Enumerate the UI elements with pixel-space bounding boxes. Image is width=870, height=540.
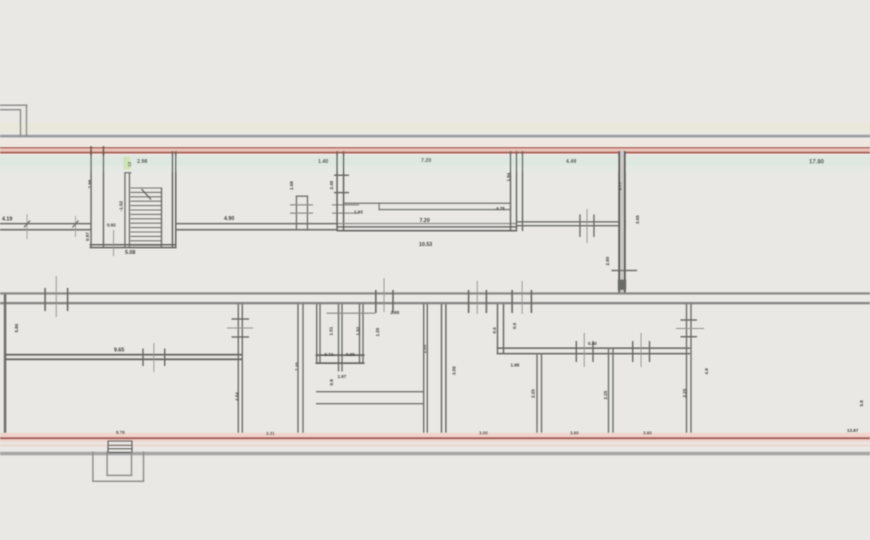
stair block second wall (103, 151, 105, 248)
svg-text:4.90: 4.90 (224, 216, 234, 222)
lower band left wall (4, 294, 7, 438)
svg-text:2.25: 2.25 (531, 389, 536, 398)
door D1 tick left (576, 341, 577, 362)
bathroom right wall line 1 (510, 151, 511, 231)
stair rail line 1 (124, 172, 125, 247)
svg-text:1.93: 1.93 (354, 210, 363, 215)
chimney protrusion top-left horizontal lines (0, 105, 28, 106)
stair block left wall (90, 151, 92, 248)
green room label patch (123, 157, 130, 170)
svg-text:3.00: 3.00 (479, 431, 488, 436)
entrance steps tread 2 (108, 448, 132, 449)
wall x240 line 1 (238, 304, 239, 438)
svg-text:3.60: 3.60 (570, 431, 579, 436)
porch outer right wall (143, 452, 144, 483)
svg-text:1.26: 1.26 (375, 327, 380, 336)
window W4 right tick (531, 290, 533, 313)
dim ext line x27 (26, 214, 29, 239)
window W1 ext line (55, 276, 58, 317)
shaft right line (307, 196, 308, 231)
stair outer right wall line 2 (175, 151, 177, 248)
counter step connector (379, 203, 380, 211)
svg-text:2.25: 2.25 (682, 388, 687, 397)
pale green band fade (0, 166, 870, 172)
chimney protrusion vertical lines (20, 109, 21, 137)
svg-text:-1.52: -1.52 (118, 201, 123, 212)
L wall horizontal (497, 347, 690, 349)
stair outer right wall line 1 (172, 151, 174, 248)
porch inner bottom wall (106, 475, 132, 476)
stair inner right wall (161, 188, 162, 248)
wc partition 2 (359, 304, 360, 364)
window W1 right tick (67, 288, 69, 311)
svg-text:2.25: 2.25 (603, 390, 608, 399)
svg-text:4.04: 4.04 (235, 392, 240, 401)
wc block right wall (423, 304, 424, 438)
svg-text:2.98: 2.98 (137, 159, 147, 165)
wc stall door tick line (327, 313, 376, 314)
svg-text:0.6: 0.6 (512, 322, 517, 329)
svg-text:0.40: 0.40 (588, 341, 597, 346)
window W4 left tick (511, 290, 513, 313)
opening tick top on x240 wall (232, 318, 250, 319)
room C bottom wall (517, 221, 626, 222)
corridor wall x444 (441, 304, 442, 438)
svg-text:5.8: 5.8 (859, 400, 864, 407)
bathroom inner counter line (344, 203, 510, 204)
door tick lower on bathroom wall (334, 192, 349, 193)
door D2 tick left (632, 341, 633, 362)
opening ext line on x689 wall (676, 328, 704, 329)
door D2 ext line (640, 333, 643, 367)
porch inner right wall (131, 452, 132, 477)
lower band top wall upper line (0, 292, 870, 294)
pale green band under top wall (0, 156, 870, 166)
svg-text:0.6: 0.6 (492, 327, 497, 334)
stair block bottom wall (90, 244, 177, 246)
bathroom left wall line 1 (336, 151, 338, 231)
door D1 ext line (583, 333, 586, 367)
bathroom inner step line (379, 209, 511, 210)
bathroom left wall line 2 (343, 151, 345, 231)
svg-text:0.92: 0.92 (107, 223, 116, 228)
counter double line 1 (316, 391, 424, 392)
exterior red wall bottom faint line (0, 444, 870, 446)
door dim ext line (586, 209, 589, 243)
porch inner left wall (106, 452, 107, 477)
svg-text:2.65: 2.65 (391, 310, 400, 315)
room C left wall line (522, 151, 523, 231)
door D2 tick right (649, 341, 650, 362)
wall x689 (686, 304, 687, 438)
exterior red wall top lower line (0, 152, 870, 154)
lower band top wall lower line (0, 302, 870, 304)
stair rail line 2 (129, 172, 130, 247)
svg-text:5.77: 5.77 (618, 181, 623, 190)
bathroom bottom wall (338, 223, 517, 224)
svg-text:1.97: 1.97 (338, 374, 347, 379)
svg-text:1.98: 1.98 (511, 363, 520, 368)
opening tick top on x689 wall (681, 319, 698, 320)
pale pink strip above red wall (0, 139, 870, 148)
window W3 left tick (468, 290, 470, 313)
svg-text:0.66: 0.66 (346, 352, 355, 357)
svg-text:3.31: 3.31 (266, 431, 275, 436)
window W3 right tick (486, 290, 488, 313)
dark partition wall right line 1 (618, 151, 625, 294)
svg-text:3.05: 3.05 (452, 366, 457, 375)
tick row y205 right (332, 204, 359, 205)
svg-text:4.9: 4.9 (704, 368, 709, 375)
gray boundary line bottom (0, 452, 870, 456)
room A bottom wall (0, 223, 91, 225)
dim ext line below stairs (112, 230, 115, 256)
window W1 left tick (44, 288, 46, 311)
tick row y205 left (290, 204, 313, 205)
exterior red wall top fill (0, 147, 870, 154)
wall x240 line 2 (242, 304, 243, 438)
dark partition wall right line 2 (624, 151, 626, 294)
wall x611 (608, 348, 609, 438)
svg-text:13.87: 13.87 (847, 428, 859, 433)
door D1 tick right (592, 341, 593, 362)
shaft left line (296, 196, 297, 231)
svg-text:1.52: 1.52 (356, 326, 361, 335)
svg-text:3.65: 3.65 (635, 215, 640, 224)
door tick right (164, 349, 165, 367)
wc partition 1 (338, 304, 339, 372)
exterior red wall bottom pink band (0, 433, 870, 442)
svg-text:5.08: 5.08 (125, 250, 135, 256)
wall x539 (536, 353, 537, 438)
L wall vertical (497, 304, 498, 354)
svg-text:0.74: 0.74 (325, 352, 334, 357)
dim tick x75 (73, 221, 79, 228)
gray boundary line top (0, 135, 870, 138)
tick row y213 right (332, 213, 359, 214)
svg-text:2.60: 2.60 (605, 256, 610, 265)
svg-text:0.97: 0.97 (85, 232, 90, 241)
wc block bottom wall (316, 354, 365, 356)
exterior red wall bottom dark line (0, 437, 870, 439)
stair direction arrow (142, 189, 152, 200)
door tick left on room C wall (579, 215, 580, 238)
svg-text:4.19: 4.19 (2, 217, 12, 223)
wall junction mark on red wall x103 (103, 146, 105, 155)
svg-text:4.75: 4.75 (496, 206, 505, 211)
counter double line 2 (316, 403, 424, 404)
wall x300 line 1 (297, 304, 298, 438)
door ext line (152, 343, 155, 372)
dim ext line x75 (74, 216, 77, 237)
dark wall end blob (618, 280, 626, 291)
svg-text:10.53: 10.53 (419, 242, 432, 248)
door tick upper on bathroom wall (334, 175, 349, 176)
svg-text:1.68: 1.68 (289, 181, 294, 190)
window W2 left tick (375, 290, 377, 313)
window W3 ext line (476, 281, 479, 314)
tick row y213 left (290, 213, 313, 214)
svg-text:1.40: 1.40 (318, 159, 328, 165)
svg-text:2.40: 2.40 (329, 180, 334, 189)
bathroom right wall line 2 (516, 151, 517, 231)
stair treads (131, 188, 162, 245)
entrance steps box (108, 441, 132, 453)
svg-text:5.86: 5.86 (14, 323, 19, 332)
window W4 ext line (521, 281, 524, 314)
svg-text:7.40: 7.40 (295, 362, 300, 371)
room B bottom wall (176, 223, 338, 225)
opening ext line (227, 328, 253, 329)
svg-text:3.60: 3.60 (643, 431, 652, 436)
exterior red wall top upper line (0, 147, 870, 149)
svg-text:17.80: 17.80 (809, 160, 825, 166)
wc block left wall (316, 304, 317, 364)
porch outer bottom wall (92, 481, 144, 482)
svg-text:0.9: 0.9 (329, 379, 334, 386)
svg-text:9.76: 9.76 (116, 430, 125, 435)
svg-text:7.20: 7.20 (421, 158, 431, 164)
svg-text:9.65: 9.65 (114, 348, 124, 354)
opening tick bottom on x689 wall (681, 336, 698, 337)
window W2 ext line (383, 278, 386, 312)
door tick right on room C wall (593, 215, 594, 238)
door tick left (142, 349, 143, 367)
opening tick bottom on x240 wall (232, 336, 250, 337)
shaft top line (296, 196, 308, 197)
svg-text:13: 13 (127, 161, 132, 167)
pale yellow band (0, 123, 870, 133)
svg-text:1.51: 1.51 (329, 326, 334, 335)
entrance steps tread 1 (108, 445, 132, 446)
window W2 right tick (392, 290, 394, 313)
interior wall horizontal left (5, 354, 243, 356)
svg-text:1.05: 1.05 (422, 344, 427, 353)
wall x300 line 2 (302, 304, 303, 438)
porch outer left wall (92, 452, 93, 483)
dim tick x27 (24, 221, 30, 228)
stair rail top cap (124, 172, 131, 173)
door tick across dark wall (612, 270, 638, 271)
wall junction mark on red wall x91 (90, 146, 92, 155)
svg-text:4.49: 4.49 (566, 159, 576, 165)
